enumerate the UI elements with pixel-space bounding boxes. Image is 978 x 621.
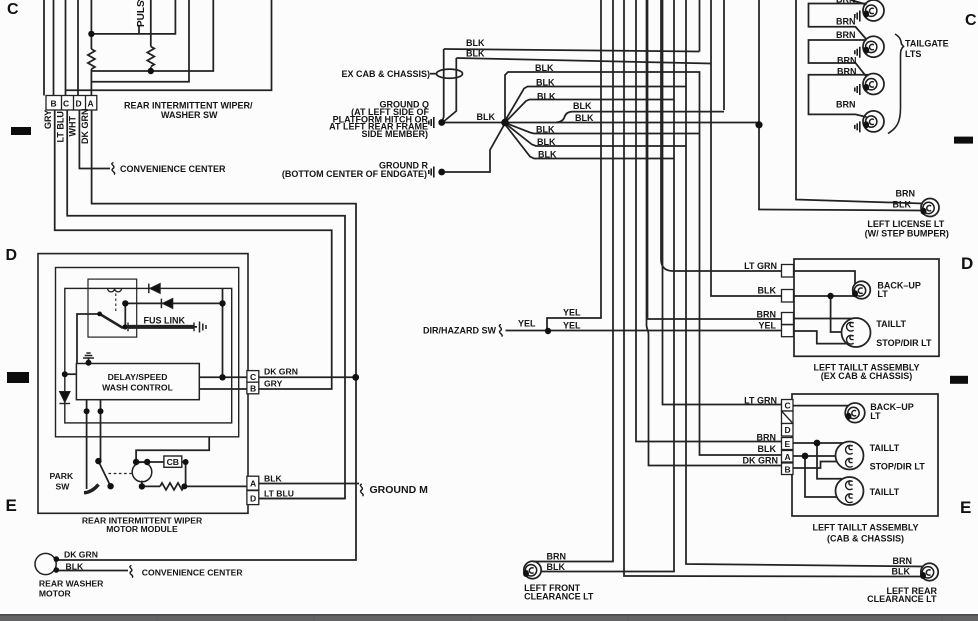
svg-text:C: C [965,12,977,29]
svg-text:BLK: BLK [477,112,496,122]
svg-text:B: B [785,465,791,475]
svg-text:(EX CAB & CHASSIS): (EX CAB & CHASSIS) [821,371,913,381]
svg-text:C: C [785,401,791,411]
svg-text:CONVENIENCE CENTER: CONVENIENCE CENTER [120,164,226,174]
svg-text:BLK: BLK [537,92,556,102]
svg-text:LT: LT [877,289,888,299]
svg-text:DK GRN: DK GRN [80,109,90,145]
svg-text:LT BLU: LT BLU [56,111,66,142]
svg-text:DK GRN: DK GRN [264,367,298,377]
svg-text:REAR INTERMITTENT WIPER/: REAR INTERMITTENT WIPER/ [124,101,253,111]
svg-text:A: A [785,452,791,462]
svg-text:(BOTTOM CENTER OF ENDGATE): (BOTTOM CENTER OF ENDGATE) [282,169,427,179]
svg-text:BRN: BRN [757,310,777,320]
svg-text:C: C [7,1,19,18]
svg-text:TAILLT: TAILLT [870,487,900,497]
svg-text:WASH CONTROL: WASH CONTROL [102,383,173,393]
svg-text:BLK: BLK [264,474,282,484]
svg-text:D: D [785,425,791,435]
svg-text:WASHER SW: WASHER SW [161,110,218,120]
svg-text:A: A [250,479,256,489]
svg-text:BRN: BRN [836,30,856,40]
svg-text:E: E [6,496,17,515]
svg-text:(CAB & CHASSIS): (CAB & CHASSIS) [827,534,904,544]
svg-text:BLK: BLK [535,63,554,73]
svg-text:LT BLU: LT BLU [264,489,294,499]
svg-text:BRN: BRN [896,189,916,199]
svg-text:BLK: BLK [66,562,84,572]
svg-text:FUS LINK: FUS LINK [144,316,186,326]
svg-text:D: D [250,494,256,504]
svg-text:TAILGATE: TAILGATE [905,39,949,49]
svg-text:E: E [785,439,791,449]
svg-text:CONVENIENCE CENTER: CONVENIENCE CENTER [142,568,244,578]
svg-text:DK GRN: DK GRN [743,456,779,466]
svg-text:MOTOR: MOTOR [39,589,72,599]
svg-text:BLK: BLK [575,113,594,123]
svg-text:BRN: BRN [757,433,777,443]
svg-text:PULS: PULS [136,0,147,27]
svg-text:D: D [961,254,973,273]
svg-text:D: D [76,99,82,109]
svg-text:PARK: PARK [50,471,75,481]
svg-text:EX CAB & CHASSIS): EX CAB & CHASSIS) [341,69,430,79]
svg-text:TAILLT: TAILLT [876,319,906,329]
svg-text:BLK: BLK [573,101,592,111]
svg-text:MOTOR MODULE: MOTOR MODULE [106,524,178,534]
svg-text:BLK: BLK [537,137,556,147]
svg-text:GROUND M: GROUND M [370,484,429,496]
svg-text:BRN: BRN [837,56,857,66]
svg-text:BLK: BLK [466,49,485,59]
svg-text:REAR WASHER: REAR WASHER [39,579,104,589]
svg-text:(W/ STEP BUMPER): (W/ STEP BUMPER) [865,228,949,238]
svg-text:YEL: YEL [518,319,536,329]
svg-text:C: C [63,99,69,109]
svg-text:STOP/DIR LT: STOP/DIR LT [870,462,926,472]
svg-text:YEL: YEL [563,308,581,318]
svg-text:LTS: LTS [905,49,921,59]
svg-text:BLK: BLK [536,78,555,88]
svg-text:CLEARANCE LT: CLEARANCE LT [524,592,594,602]
svg-text:CLEARANCE LT: CLEARANCE LT [867,594,937,604]
svg-text:BLK: BLK [547,562,566,572]
svg-text:LT: LT [870,411,881,421]
svg-text:BRN: BRN [893,556,913,566]
svg-text:B: B [250,384,256,394]
svg-text:YEL: YEL [758,321,776,331]
svg-text:DK GRN: DK GRN [64,550,98,560]
svg-text:STOP/DIR LT: STOP/DIR LT [876,338,932,348]
svg-text:BLK: BLK [538,150,557,160]
svg-text:BLK: BLK [466,38,485,48]
svg-text:BLK: BLK [893,200,912,210]
svg-text:BRN: BRN [836,100,856,110]
svg-text:BLK: BLK [536,125,555,135]
svg-text:GRY: GRY [264,379,283,389]
svg-text:B: B [51,99,57,109]
svg-text:SIDE MEMBER): SIDE MEMBER) [361,129,428,139]
svg-text:GRY: GRY [43,110,53,129]
svg-text:DELAY/SPEED: DELAY/SPEED [108,372,168,382]
svg-text:BRN: BRN [547,552,567,562]
svg-text:BRN: BRN [836,0,856,5]
svg-text:D: D [6,247,18,264]
svg-text:WHT: WHT [68,116,78,137]
svg-text:A: A [88,99,94,109]
svg-text:BRN: BRN [837,67,857,77]
svg-text:C: C [250,372,256,382]
svg-text:TAILLT: TAILLT [870,443,900,453]
svg-text:E: E [960,498,971,517]
svg-text:DIR/HAZARD SW: DIR/HAZARD SW [423,326,496,336]
svg-text:CB: CB [167,457,179,467]
svg-text:BLK: BLK [892,567,911,577]
svg-text:LT GRN: LT GRN [744,261,777,271]
svg-text:BRN: BRN [836,17,856,27]
svg-text:BLK: BLK [758,444,777,454]
svg-text:BLK: BLK [758,286,777,296]
svg-text:LT GRN: LT GRN [744,396,777,406]
svg-text:LEFT TAILLT ASSEMBLY: LEFT TAILLT ASSEMBLY [813,523,919,533]
svg-text:YEL: YEL [563,321,581,331]
svg-text:SW: SW [56,482,71,492]
